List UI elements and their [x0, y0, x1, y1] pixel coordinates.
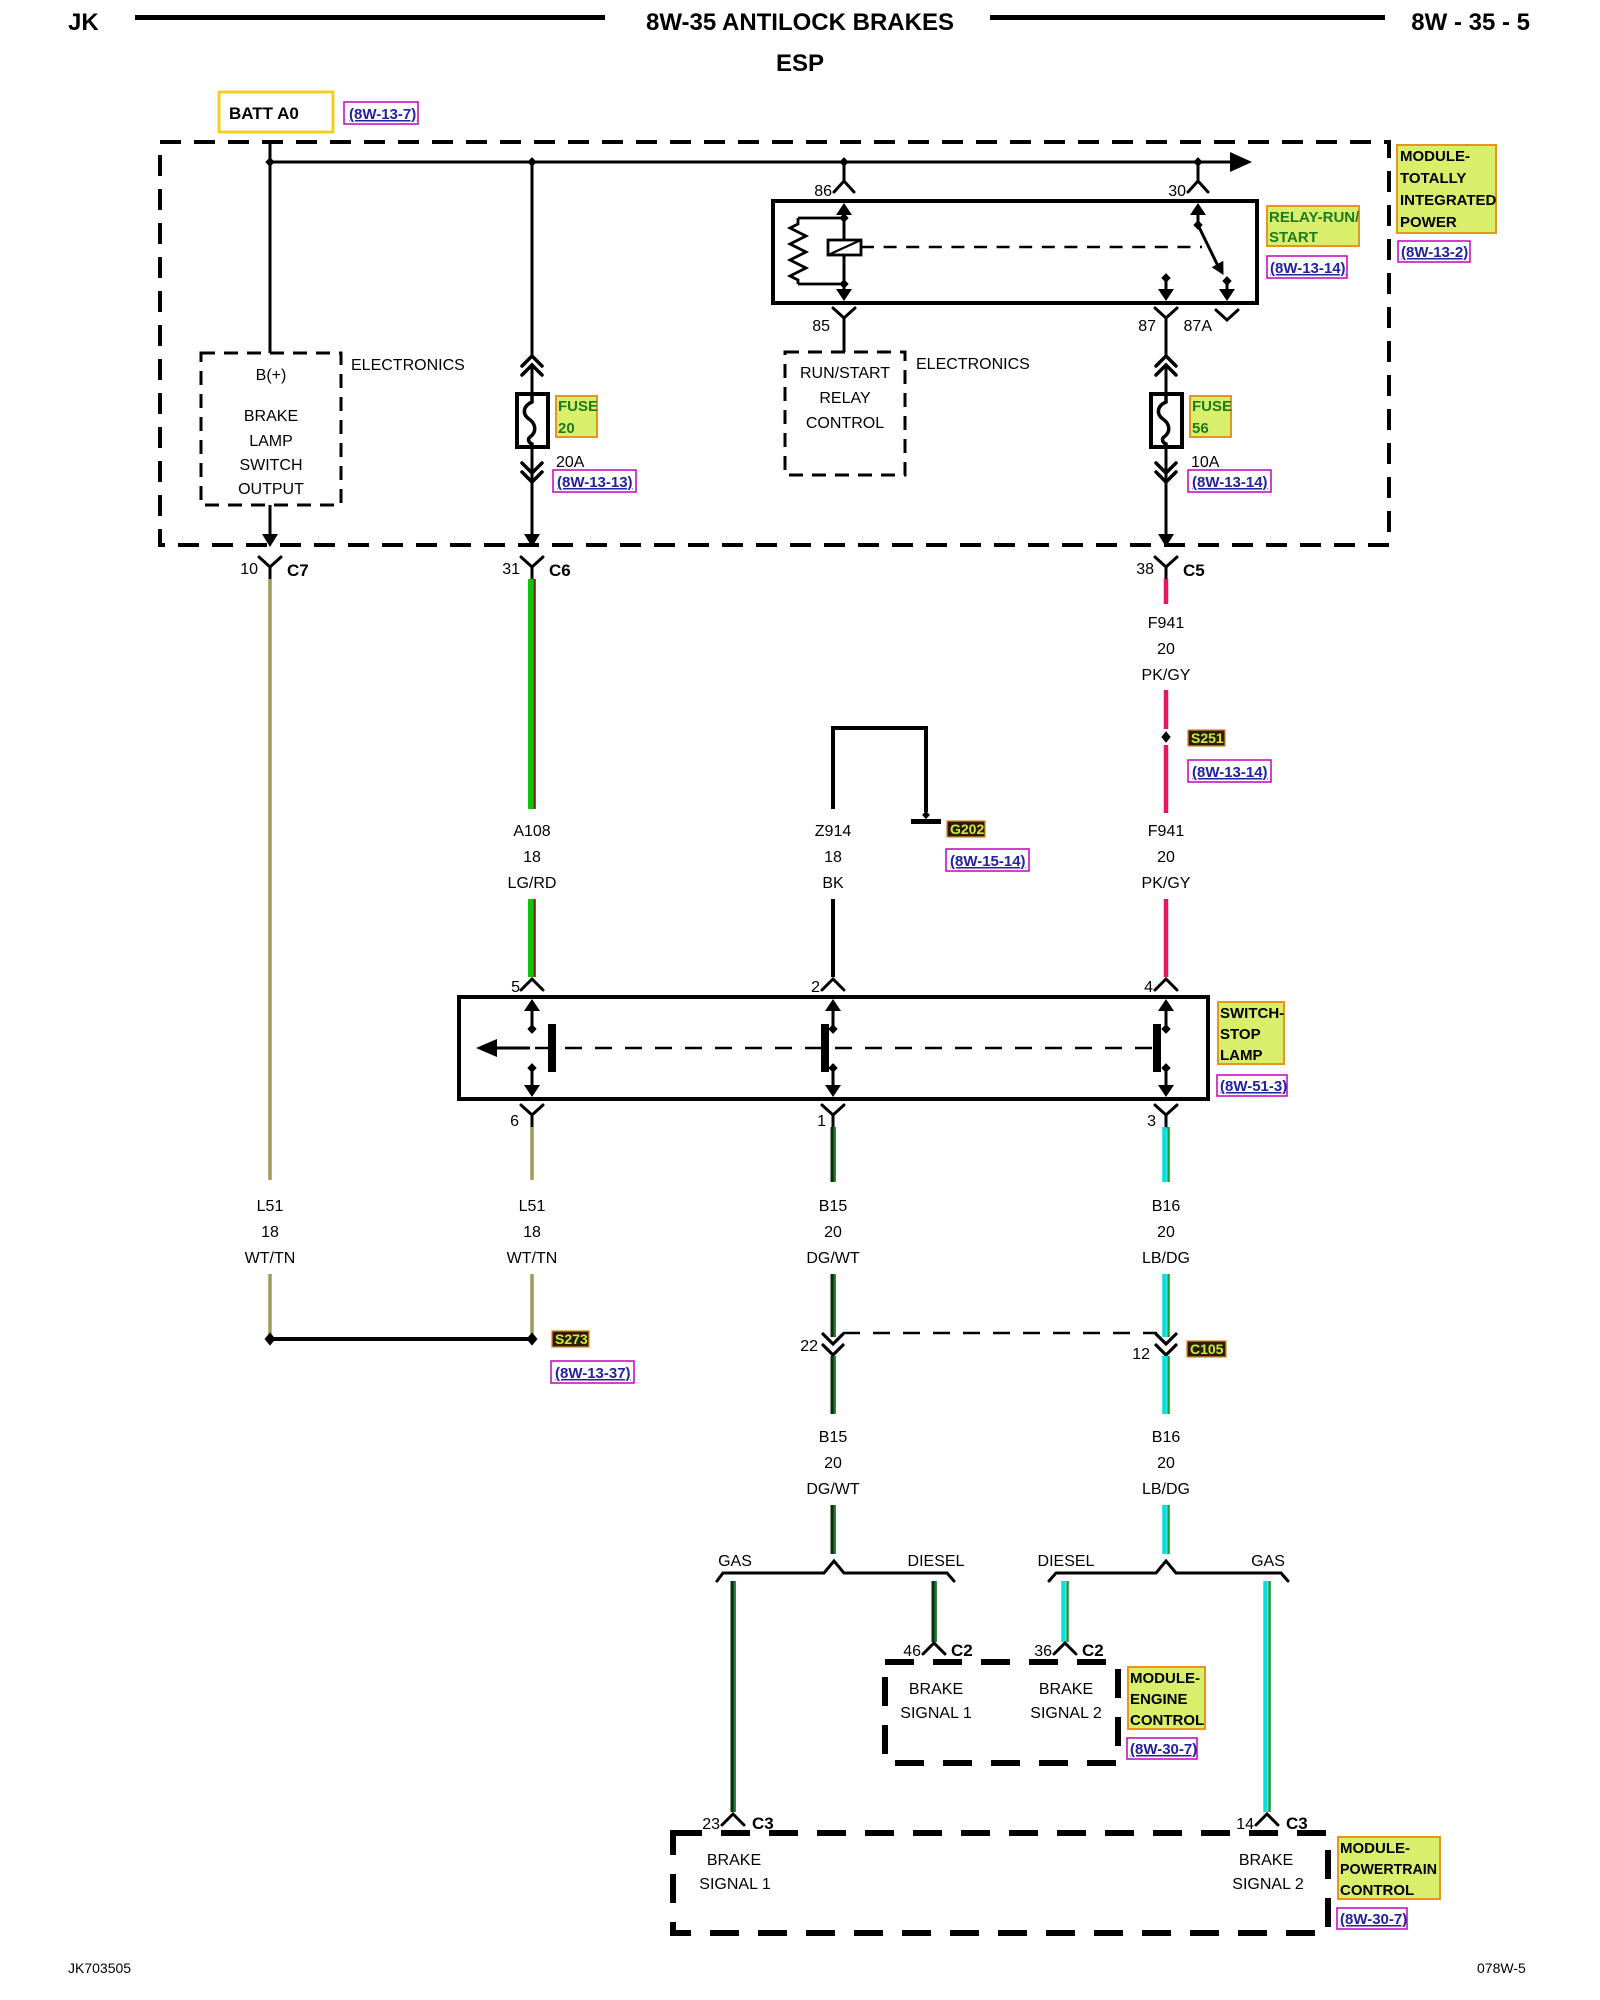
- svg-text:ELECTRONICS: ELECTRONICS: [916, 356, 1030, 373]
- svg-text:MODULE-: MODULE-: [1400, 148, 1470, 165]
- svg-text:B16: B16: [1152, 1429, 1181, 1446]
- label A108 18 LG/RD: [508, 823, 557, 892]
- switch pin5 internal arrow up: [524, 999, 540, 1011]
- svg-text:BRAKE: BRAKE: [1239, 1852, 1293, 1869]
- link 8W-30-7 powertrain: [1337, 1908, 1407, 1929]
- fuse F56 symbol: [1151, 394, 1182, 447]
- wire B15 DG/WT seg3: [831, 1356, 834, 1414]
- link 8W-13-14 fuse56: [1188, 470, 1271, 492]
- svg-text:20: 20: [1157, 641, 1175, 658]
- wire B15 gas branch: [731, 1581, 734, 1812]
- arrowhead at C5: [1158, 534, 1174, 547]
- svg-text:1: 1: [817, 1113, 826, 1130]
- connector C2 pin 36: [1034, 1641, 1104, 1660]
- wire fuse20 drop: [531, 162, 534, 356]
- fuse F20 crossing chevrons bottom: [522, 463, 542, 482]
- node bus junction 1: [265, 157, 274, 167]
- svg-text:CONTROL: CONTROL: [806, 415, 884, 432]
- svg-text:(8W-13-37): (8W-13-37): [555, 1365, 631, 1382]
- svg-text:CONTROL: CONTROL: [1340, 1882, 1414, 1899]
- svg-text:BK: BK: [822, 875, 844, 892]
- link 8W-51-3: [1217, 1075, 1287, 1096]
- svg-text:18: 18: [523, 849, 541, 866]
- relay pin87A internal arrow down: [1219, 289, 1235, 301]
- wire into fuse56: [1165, 365, 1168, 394]
- connector C3 pin 23: [702, 1814, 774, 1833]
- svg-text:078W-5: 078W-5: [1477, 1960, 1526, 1976]
- label Z914 18 BK: [815, 823, 852, 892]
- svg-text:8W - 35 - 5: 8W - 35 - 5: [1411, 9, 1530, 36]
- connector C105 dashed tie: [843, 1332, 1157, 1335]
- wire A108 LG/RD upper: [531, 579, 535, 809]
- wire L51 WT/TN pin6 upper: [530, 1127, 534, 1180]
- connector pin 86: [834, 181, 854, 192]
- svg-text:MODULE-: MODULE-: [1340, 1840, 1410, 1857]
- svg-text:18: 18: [824, 849, 842, 866]
- relay label RELAY-RUN/START: [1267, 206, 1360, 246]
- svg-text:22: 22: [800, 1338, 818, 1355]
- svg-text:23: 23: [702, 1816, 720, 1833]
- svg-text:6: 6: [510, 1113, 519, 1130]
- wire 87A internal: [1226, 281, 1229, 291]
- module powertrain control label: [1338, 1837, 1440, 1899]
- fuse F56 label: [1190, 396, 1232, 437]
- svg-text:(8W-13-14): (8W-13-14): [1192, 764, 1268, 781]
- svg-text:20: 20: [558, 420, 575, 437]
- wire below fuse56: [1165, 447, 1168, 481]
- wire B16 LB/DG seg4: [1165, 1505, 1169, 1554]
- svg-text:S251: S251: [1191, 730, 1224, 746]
- svg-text:(8W-13-7): (8W-13-7): [349, 106, 416, 123]
- connector pin 6: [510, 1105, 543, 1130]
- svg-text:FUSE: FUSE: [558, 398, 598, 415]
- label F941 20 PK/GY upper: [1142, 615, 1191, 684]
- resistor relay coil suppressor: [790, 218, 844, 284]
- connector C5 pin 38: [1136, 557, 1205, 580]
- wire switch pin5 stem: [531, 1010, 534, 1030]
- svg-text:JK: JK: [68, 9, 99, 36]
- node switch pin4: [1161, 1024, 1170, 1034]
- svg-text:C5: C5: [1183, 561, 1205, 580]
- wire L51 right lower: [530, 1274, 534, 1334]
- relay pin30 internal arrow up: [1190, 203, 1206, 215]
- svg-text:3: 3: [1147, 1113, 1156, 1130]
- svg-text:SWITCH: SWITCH: [239, 457, 302, 474]
- node bus junction 2: [527, 157, 536, 167]
- svg-text:LB/DG: LB/DG: [1142, 1481, 1190, 1498]
- node switch pin1: [828, 1063, 837, 1073]
- svg-text:WT/TN: WT/TN: [245, 1250, 296, 1267]
- ground G202 symbol: [911, 811, 941, 824]
- label B15 20 DG/WT upper: [806, 1198, 860, 1267]
- switch pin1 internal arrow down: [825, 1085, 841, 1097]
- splice S273 bus: [270, 1337, 532, 1341]
- svg-text:BRAKE: BRAKE: [909, 1681, 963, 1698]
- label L51 18 WT/TN left: [245, 1198, 296, 1267]
- node pin30: [1193, 220, 1202, 230]
- svg-text:LB/DG: LB/DG: [1142, 1250, 1190, 1267]
- node coil top: [839, 213, 848, 223]
- connector pin 1: [817, 1105, 844, 1130]
- bus arrowhead: [1230, 152, 1252, 172]
- splitter brace gas/diesel left: [717, 1561, 954, 1581]
- connector C7 pin 10: [240, 557, 309, 580]
- svg-text:GAS: GAS: [718, 1553, 752, 1570]
- svg-text:(8W-13-14): (8W-13-14): [1270, 260, 1346, 277]
- svg-text:F941: F941: [1148, 823, 1185, 840]
- wire B16 LB/DG seg3: [1165, 1356, 1169, 1414]
- switch actuator dashed line: [535, 1047, 1153, 1050]
- svg-text:DIESEL: DIESEL: [1038, 1553, 1095, 1570]
- svg-text:C2: C2: [1082, 1641, 1104, 1660]
- node switch pin5: [527, 1024, 536, 1034]
- module engine control label: [1128, 1667, 1205, 1729]
- link 8W-13-14 S251: [1188, 760, 1271, 782]
- connector C2 pin 46: [903, 1641, 973, 1660]
- node pin87A top: [1222, 276, 1231, 286]
- svg-text:87: 87: [1138, 318, 1156, 335]
- label B16 20 LB/DG lower: [1142, 1429, 1190, 1498]
- svg-text:(8W-51-3): (8W-51-3): [1220, 1078, 1287, 1095]
- svg-text:ENGINE: ENGINE: [1130, 1691, 1188, 1708]
- connector C3 pin 14: [1236, 1814, 1308, 1833]
- relay pin87 internal arrow down: [1158, 289, 1174, 301]
- node bus junction 4: [1193, 157, 1202, 167]
- svg-text:20: 20: [824, 1224, 842, 1241]
- svg-text:CONTROL: CONTROL: [1130, 1712, 1204, 1729]
- wire B(+) output drop: [269, 505, 272, 538]
- link 8W-30-7 engine: [1127, 1738, 1197, 1759]
- connector pin 87: [1155, 308, 1177, 331]
- svg-text:POWER: POWER: [1400, 214, 1457, 231]
- svg-text:C6: C6: [549, 561, 571, 580]
- wire switch pin1 stem: [832, 1066, 835, 1086]
- svg-text:20: 20: [1157, 849, 1175, 866]
- svg-text:LAMP: LAMP: [1220, 1047, 1263, 1064]
- connector pin 3: [1147, 1105, 1177, 1130]
- wire Z914 BK lower: [831, 899, 835, 977]
- svg-text:C7: C7: [287, 561, 309, 580]
- svg-text:10A: 10A: [1191, 454, 1220, 471]
- switch stop lamp label: [1218, 1002, 1284, 1064]
- svg-text:C105: C105: [1190, 1341, 1224, 1357]
- svg-text:8W-35 ANTILOCK BRAKES: 8W-35 ANTILOCK BRAKES: [646, 9, 954, 36]
- arrowhead at C6: [524, 534, 540, 547]
- switch contact bar 3: [1153, 1024, 1161, 1072]
- svg-text:RELAY: RELAY: [819, 390, 871, 407]
- fuse F20 label: [556, 396, 598, 437]
- wire switch pin2 stem: [832, 1010, 835, 1030]
- connector pin 30: [1188, 181, 1208, 192]
- wire battery feed vertical: [269, 142, 272, 353]
- svg-text:TOTALLY: TOTALLY: [1400, 170, 1466, 187]
- wire 87 internal: [1165, 278, 1168, 291]
- module TIPM label: [1397, 145, 1497, 233]
- wire B15 DG/WT seg2: [831, 1274, 834, 1337]
- wire F941 PK/GY seg3: [1164, 745, 1169, 813]
- module powertrain control dashed box: [673, 1833, 1328, 1933]
- switch pin2 internal arrow up: [825, 999, 841, 1011]
- wire F941 PK/GY seg2: [1164, 690, 1169, 729]
- fuse F56 crossing chevrons bottom: [1156, 463, 1176, 482]
- switch stop lamp box: [459, 997, 1208, 1099]
- svg-text:12: 12: [1132, 1346, 1150, 1363]
- fuse F20 crossing chevrons top: [522, 356, 542, 375]
- wire B16 gas branch: [1266, 1581, 1270, 1812]
- svg-text:20: 20: [1157, 1455, 1175, 1472]
- wire below fuse20: [531, 447, 534, 481]
- svg-text:STOP: STOP: [1220, 1026, 1261, 1043]
- ground G202 label: [947, 821, 985, 837]
- node bus junction 3: [839, 157, 848, 167]
- wire Z914 ground loop: [833, 728, 926, 812]
- module TIPM dashed outline: [160, 142, 1389, 545]
- wire B15 DG/WT seg4: [831, 1505, 834, 1554]
- wire relay control drop: [843, 331, 846, 352]
- svg-text:85: 85: [812, 318, 830, 335]
- connector pin 5: [511, 979, 543, 996]
- label B15 20 DG/WT lower: [806, 1429, 860, 1498]
- switch actuator arrow left: [476, 1039, 497, 1057]
- wire L51 left lower: [268, 1274, 272, 1334]
- svg-text:ESP: ESP: [776, 50, 824, 77]
- wire into fuse20: [531, 365, 534, 394]
- wire switch pin6 stem: [531, 1066, 534, 1086]
- wire B15 diesel branch: [932, 1581, 935, 1642]
- wire A108 LG/RD lower: [531, 899, 535, 977]
- wire to C6: [531, 481, 534, 538]
- svg-text:56: 56: [1192, 420, 1209, 437]
- connector C105 label: [1187, 1341, 1226, 1357]
- node pin87 top: [1161, 273, 1170, 283]
- relay coil: [828, 240, 861, 255]
- splice S273 label: [552, 1331, 589, 1347]
- splitter brace diesel/gas right: [1049, 1561, 1288, 1581]
- header left JK: [68, 9, 605, 36]
- svg-text:B16: B16: [1152, 1198, 1181, 1215]
- svg-text:18: 18: [523, 1224, 541, 1241]
- svg-text:(8W-13-14): (8W-13-14): [1192, 474, 1268, 491]
- svg-text:20: 20: [824, 1455, 842, 1472]
- svg-text:BATT A0: BATT A0: [229, 104, 299, 123]
- label F941 20 PK/GY lower: [1142, 823, 1191, 892]
- relay pin85 internal arrow down: [836, 289, 852, 301]
- relay pin86 internal arrow up: [836, 203, 852, 215]
- svg-text:LAMP: LAMP: [249, 433, 293, 450]
- wire F941 PK/GY seg4: [1164, 899, 1169, 977]
- svg-text:30: 30: [1168, 183, 1186, 200]
- svg-text:F941: F941: [1148, 615, 1185, 632]
- blade arrowhead: [1212, 261, 1224, 275]
- svg-text:31: 31: [502, 561, 520, 578]
- connector C105 pin 12 chevrons: [1156, 1334, 1176, 1355]
- wire battery bus: [270, 161, 1238, 164]
- svg-text:2: 2: [811, 979, 820, 996]
- svg-text:POWERTRAIN: POWERTRAIN: [1340, 1861, 1437, 1878]
- svg-text:36: 36: [1034, 1643, 1052, 1660]
- svg-text:A108: A108: [513, 823, 550, 840]
- svg-text:G202: G202: [950, 821, 984, 837]
- svg-text:SIGNAL 2: SIGNAL 2: [1030, 1705, 1102, 1722]
- svg-text:WT/TN: WT/TN: [507, 1250, 558, 1267]
- svg-text:(8W-15-14): (8W-15-14): [950, 853, 1026, 870]
- svg-text:(8W-13-2): (8W-13-2): [1401, 244, 1468, 261]
- svg-text:BRAKE: BRAKE: [244, 408, 298, 425]
- svg-text:BRAKE: BRAKE: [1039, 1681, 1093, 1698]
- svg-text:B(+): B(+): [256, 367, 287, 384]
- header title: [646, 9, 1530, 77]
- label L51 18 WT/TN right: [507, 1198, 558, 1267]
- svg-text:4: 4: [1144, 979, 1153, 996]
- svg-text:MODULE-: MODULE-: [1130, 1670, 1200, 1687]
- wire to C5: [1165, 481, 1168, 538]
- svg-text:S273: S273: [555, 1331, 588, 1347]
- wire relay coil top: [843, 213, 846, 240]
- switch pin4 internal arrow up: [1158, 999, 1174, 1011]
- switch pin3 internal arrow down: [1158, 1085, 1174, 1097]
- svg-text:DG/WT: DG/WT: [806, 1481, 860, 1498]
- wire switch pin3 stem: [1165, 1066, 1168, 1086]
- node switch pin2: [828, 1024, 837, 1034]
- label B16 20 LB/DG upper: [1142, 1198, 1190, 1267]
- svg-text:START: START: [1269, 229, 1318, 246]
- svg-text:BRAKE: BRAKE: [707, 1852, 761, 1869]
- svg-text:SWITCH-: SWITCH-: [1220, 1005, 1284, 1022]
- wire B16 LB/DG seg1: [1165, 1127, 1169, 1182]
- fuse F20 symbol: [517, 394, 548, 447]
- link 8W-13-14 relay: [1267, 256, 1347, 278]
- wire fuse56 drop: [1165, 331, 1168, 356]
- link 8W-13-13: [553, 470, 636, 492]
- svg-text:JK703505: JK703505: [68, 1960, 131, 1976]
- svg-text:SIGNAL 2: SIGNAL 2: [1232, 1876, 1304, 1893]
- wire coil bottom: [843, 255, 846, 291]
- wire B16 LB/DG seg2: [1165, 1274, 1169, 1337]
- battery feed BATT A0: [219, 92, 333, 132]
- wire pin30 stem: [1197, 213, 1200, 228]
- svg-text:INTEGRATED: INTEGRATED: [1400, 192, 1497, 209]
- svg-text:DIESEL: DIESEL: [908, 1553, 965, 1570]
- arrowhead at C7: [262, 534, 278, 547]
- connector pin 2: [811, 979, 844, 996]
- svg-text:(8W-13-13): (8W-13-13): [557, 474, 633, 491]
- link 8W-13-2: [1398, 241, 1470, 262]
- switch contact bar 1: [548, 1024, 556, 1072]
- svg-text:L51: L51: [519, 1198, 546, 1215]
- svg-text:18: 18: [261, 1224, 279, 1241]
- svg-text:87A: 87A: [1184, 318, 1213, 335]
- svg-text:RUN/START: RUN/START: [800, 365, 890, 382]
- node coil bottom: [839, 279, 848, 289]
- svg-text:ELECTRONICS: ELECTRONICS: [351, 357, 465, 374]
- splice S273 node right: [527, 1332, 538, 1345]
- node switch pin6: [527, 1063, 536, 1073]
- svg-text:OUTPUT: OUTPUT: [238, 481, 304, 498]
- connector pin 85: [833, 308, 855, 331]
- svg-text:C2: C2: [951, 1641, 973, 1660]
- svg-text:(8W-30-7): (8W-30-7): [1340, 1911, 1407, 1928]
- svg-text:GAS: GAS: [1251, 1553, 1285, 1570]
- svg-text:PK/GY: PK/GY: [1142, 667, 1191, 684]
- node switch pin3: [1161, 1063, 1170, 1073]
- link 8W-15-14: [946, 849, 1029, 871]
- wire pin86 drop: [843, 162, 846, 181]
- svg-text:20: 20: [1157, 1224, 1175, 1241]
- svg-text:L51: L51: [257, 1198, 284, 1215]
- switch contact bar 2: [821, 1024, 829, 1072]
- splice S273 node left: [265, 1332, 276, 1345]
- svg-text:LG/RD: LG/RD: [508, 875, 557, 892]
- relay RELAY-RUN/START box: [773, 201, 1257, 303]
- switch actuator tail: [494, 1047, 530, 1050]
- module engine control dashed box: [885, 1662, 1118, 1763]
- svg-text:DG/WT: DG/WT: [806, 1250, 860, 1267]
- link 8W-13-37: [551, 1361, 634, 1383]
- svg-text:38: 38: [1136, 561, 1154, 578]
- wire L51 WT/TN left upper: [268, 579, 272, 1180]
- connector C6 pin 31: [502, 557, 571, 580]
- fuse F56 crossing chevrons top: [1156, 356, 1176, 375]
- svg-text:SIGNAL 1: SIGNAL 1: [900, 1705, 972, 1722]
- svg-text:SIGNAL 1: SIGNAL 1: [699, 1876, 771, 1893]
- svg-text:10: 10: [240, 561, 258, 578]
- svg-text:B15: B15: [819, 1198, 848, 1215]
- wire B16 diesel branch: [1064, 1581, 1068, 1642]
- svg-text:RELAY-RUN/: RELAY-RUN/: [1269, 209, 1360, 226]
- relay actuation dashed line: [861, 246, 1202, 249]
- connector pin 87A: [1216, 310, 1238, 320]
- svg-text:20A: 20A: [556, 454, 585, 471]
- svg-text:5: 5: [511, 979, 520, 996]
- wire B15 DG/WT seg1: [831, 1127, 834, 1182]
- svg-text:(8W-30-7): (8W-30-7): [1130, 1741, 1197, 1758]
- wire switch pin4 stem: [1165, 1010, 1168, 1030]
- svg-text:46: 46: [903, 1643, 921, 1660]
- svg-text:PK/GY: PK/GY: [1142, 875, 1191, 892]
- svg-text:Z914: Z914: [815, 823, 852, 840]
- connector pin 4: [1144, 979, 1177, 996]
- svg-text:B15: B15: [819, 1429, 848, 1446]
- relay switch blade: [1198, 225, 1218, 266]
- switch pin6 internal arrow down: [524, 1085, 540, 1097]
- svg-text:FUSE: FUSE: [1192, 398, 1232, 415]
- splice S251 node: [1161, 731, 1170, 742]
- connector B(+) brake lamp switch output: [201, 353, 341, 505]
- wire pin30 drop: [1197, 162, 1200, 181]
- splice S251 label: [1188, 730, 1225, 746]
- link 8W-13-7: [344, 102, 418, 124]
- svg-text:86: 86: [814, 183, 832, 200]
- connector C105 pin 22 chevrons: [823, 1334, 843, 1355]
- run/start relay control dashed box: [785, 352, 905, 475]
- wire F941 PK/GY seg1: [1164, 579, 1169, 604]
